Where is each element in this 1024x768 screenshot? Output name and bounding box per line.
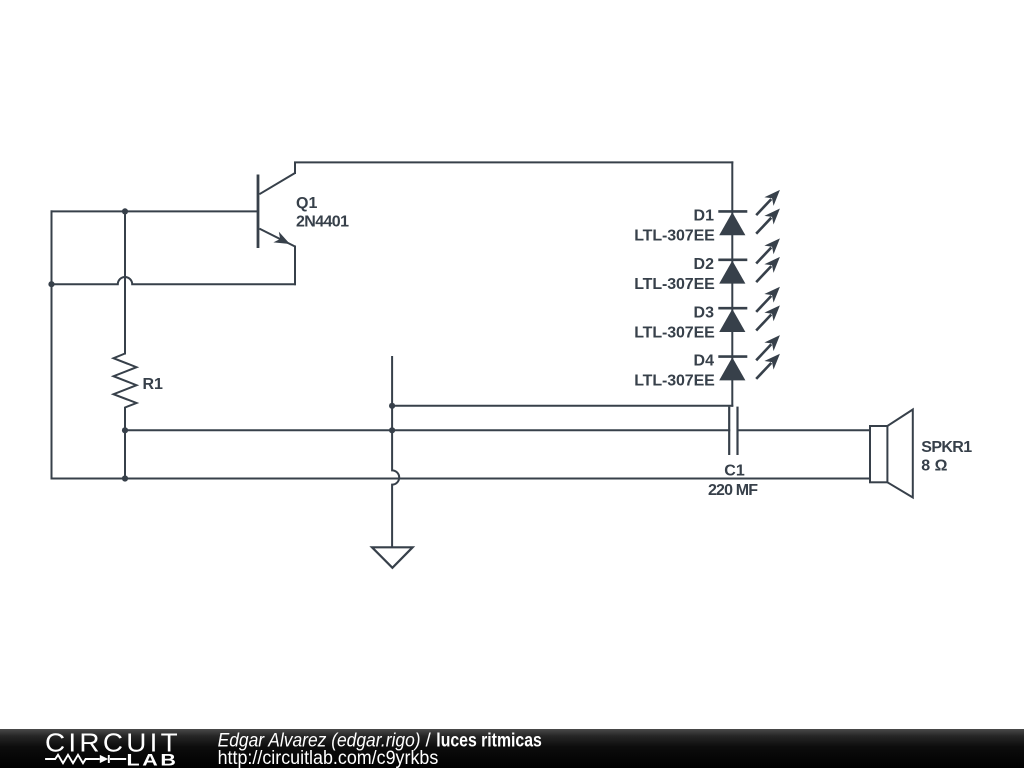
svg-text:SPKR1: SPKR1 — [921, 439, 972, 456]
svg-text:LTL-307EE: LTL-307EE — [634, 228, 715, 245]
wire LED string vertical — [731, 162, 733, 405]
wire collector top horizontal — [295, 162, 732, 173]
logo diode triangle — [100, 755, 108, 763]
logo resistor-diode symbol — [45, 755, 126, 763]
svg-text:D1: D1 — [694, 208, 715, 225]
wire emitter vertical — [294, 247, 296, 285]
svg-text:D4: D4 — [694, 353, 715, 370]
resistor R1 — [114, 354, 137, 431]
wire mid rail R1 to capacitor — [125, 429, 729, 431]
svg-text:http://circuitlab.com/c9yrkbs: http://circuitlab.com/c9yrkbs — [218, 748, 439, 768]
capacitor C1 — [729, 407, 737, 455]
diode D1 (LED) — [718, 186, 784, 238]
wire LED bottom horizontal to ground stub — [392, 405, 732, 407]
diode D2 (LED) — [718, 234, 784, 286]
svg-text:luces ritmicas: luces ritmicas — [436, 731, 542, 752]
svg-text:220 MF: 220 MF — [708, 482, 758, 499]
svg-text:D2: D2 — [694, 256, 715, 273]
node junction dot base/R1 — [122, 208, 128, 214]
diode D3 (LED) — [718, 282, 784, 334]
footer author line — [218, 731, 542, 752]
svg-text:LTL-307EE: LTL-307EE — [634, 276, 715, 293]
svg-text:C1: C1 — [724, 463, 745, 480]
svg-text:R1: R1 — [143, 376, 164, 393]
node junction dot left rail/bottom rail — [122, 475, 128, 481]
node junction dot ground stub/LED bottom wire — [389, 403, 395, 409]
wire emitter rail with hop over R1 branch — [52, 277, 296, 284]
svg-text:LAB: LAB — [127, 751, 179, 768]
svg-text:LTL-307EE: LTL-307EE — [634, 324, 715, 341]
transistor Q1 — [258, 173, 295, 249]
svg-text:2N4401: 2N4401 — [296, 214, 349, 231]
wire branch down to R1 — [124, 211, 126, 353]
wire top-left horizontal (base net) — [52, 210, 257, 212]
wire capacitor to speaker — [738, 429, 871, 431]
speaker SPKR1 — [870, 410, 913, 498]
svg-text:D3: D3 — [694, 304, 715, 321]
node junction dot left rail/emitter rail — [48, 281, 54, 287]
svg-text:LTL-307EE: LTL-307EE — [634, 373, 715, 390]
wire ground stub vertical with hop over bottom rail — [392, 357, 399, 547]
diode D4 (LED) — [718, 331, 784, 383]
svg-text:Q1: Q1 — [296, 195, 317, 212]
svg-text:8 Ω: 8 Ω — [921, 457, 947, 474]
ground — [372, 547, 413, 568]
wire R1 bottom to bottom rail — [124, 430, 126, 478]
node junction dot ground stub/mid rail — [389, 427, 395, 433]
node junction dot R1/mid rail — [122, 427, 128, 433]
wire bottom rail — [52, 478, 871, 480]
wire left rail vertical — [51, 211, 53, 478]
